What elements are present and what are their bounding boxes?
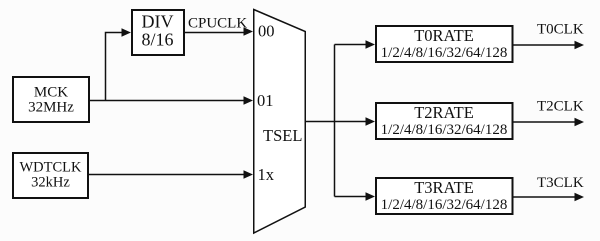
svg-text:TSEL: TSEL	[263, 126, 302, 145]
svg-text:MCK: MCK	[34, 85, 68, 101]
svg-text:1/2/4/8/16/32/64/128: 1/2/4/8/16/32/64/128	[381, 197, 508, 213]
svg-text:WDTCLK: WDTCLK	[19, 160, 82, 176]
svg-text:T3RATE: T3RATE	[414, 178, 474, 197]
svg-text:01: 01	[257, 91, 274, 110]
svg-text:T2RATE: T2RATE	[414, 103, 474, 122]
svg-text:32MHz: 32MHz	[28, 100, 74, 116]
svg-text:T2CLK: T2CLK	[537, 99, 584, 115]
svg-text:1/2/4/8/16/32/64/128: 1/2/4/8/16/32/64/128	[381, 122, 508, 138]
svg-text:T0CLK: T0CLK	[537, 22, 584, 38]
svg-text:T3CLK: T3CLK	[537, 175, 584, 191]
svg-text:1/2/4/8/16/32/64/128: 1/2/4/8/16/32/64/128	[381, 45, 508, 61]
svg-text:00: 00	[258, 22, 275, 41]
svg-text:DIV: DIV	[142, 12, 174, 32]
svg-text:T0RATE: T0RATE	[414, 26, 474, 45]
svg-text:CPUCLK: CPUCLK	[188, 16, 247, 32]
svg-text:32kHz: 32kHz	[31, 175, 70, 191]
svg-text:1x: 1x	[258, 165, 275, 184]
svg-text:8/16: 8/16	[141, 30, 173, 50]
